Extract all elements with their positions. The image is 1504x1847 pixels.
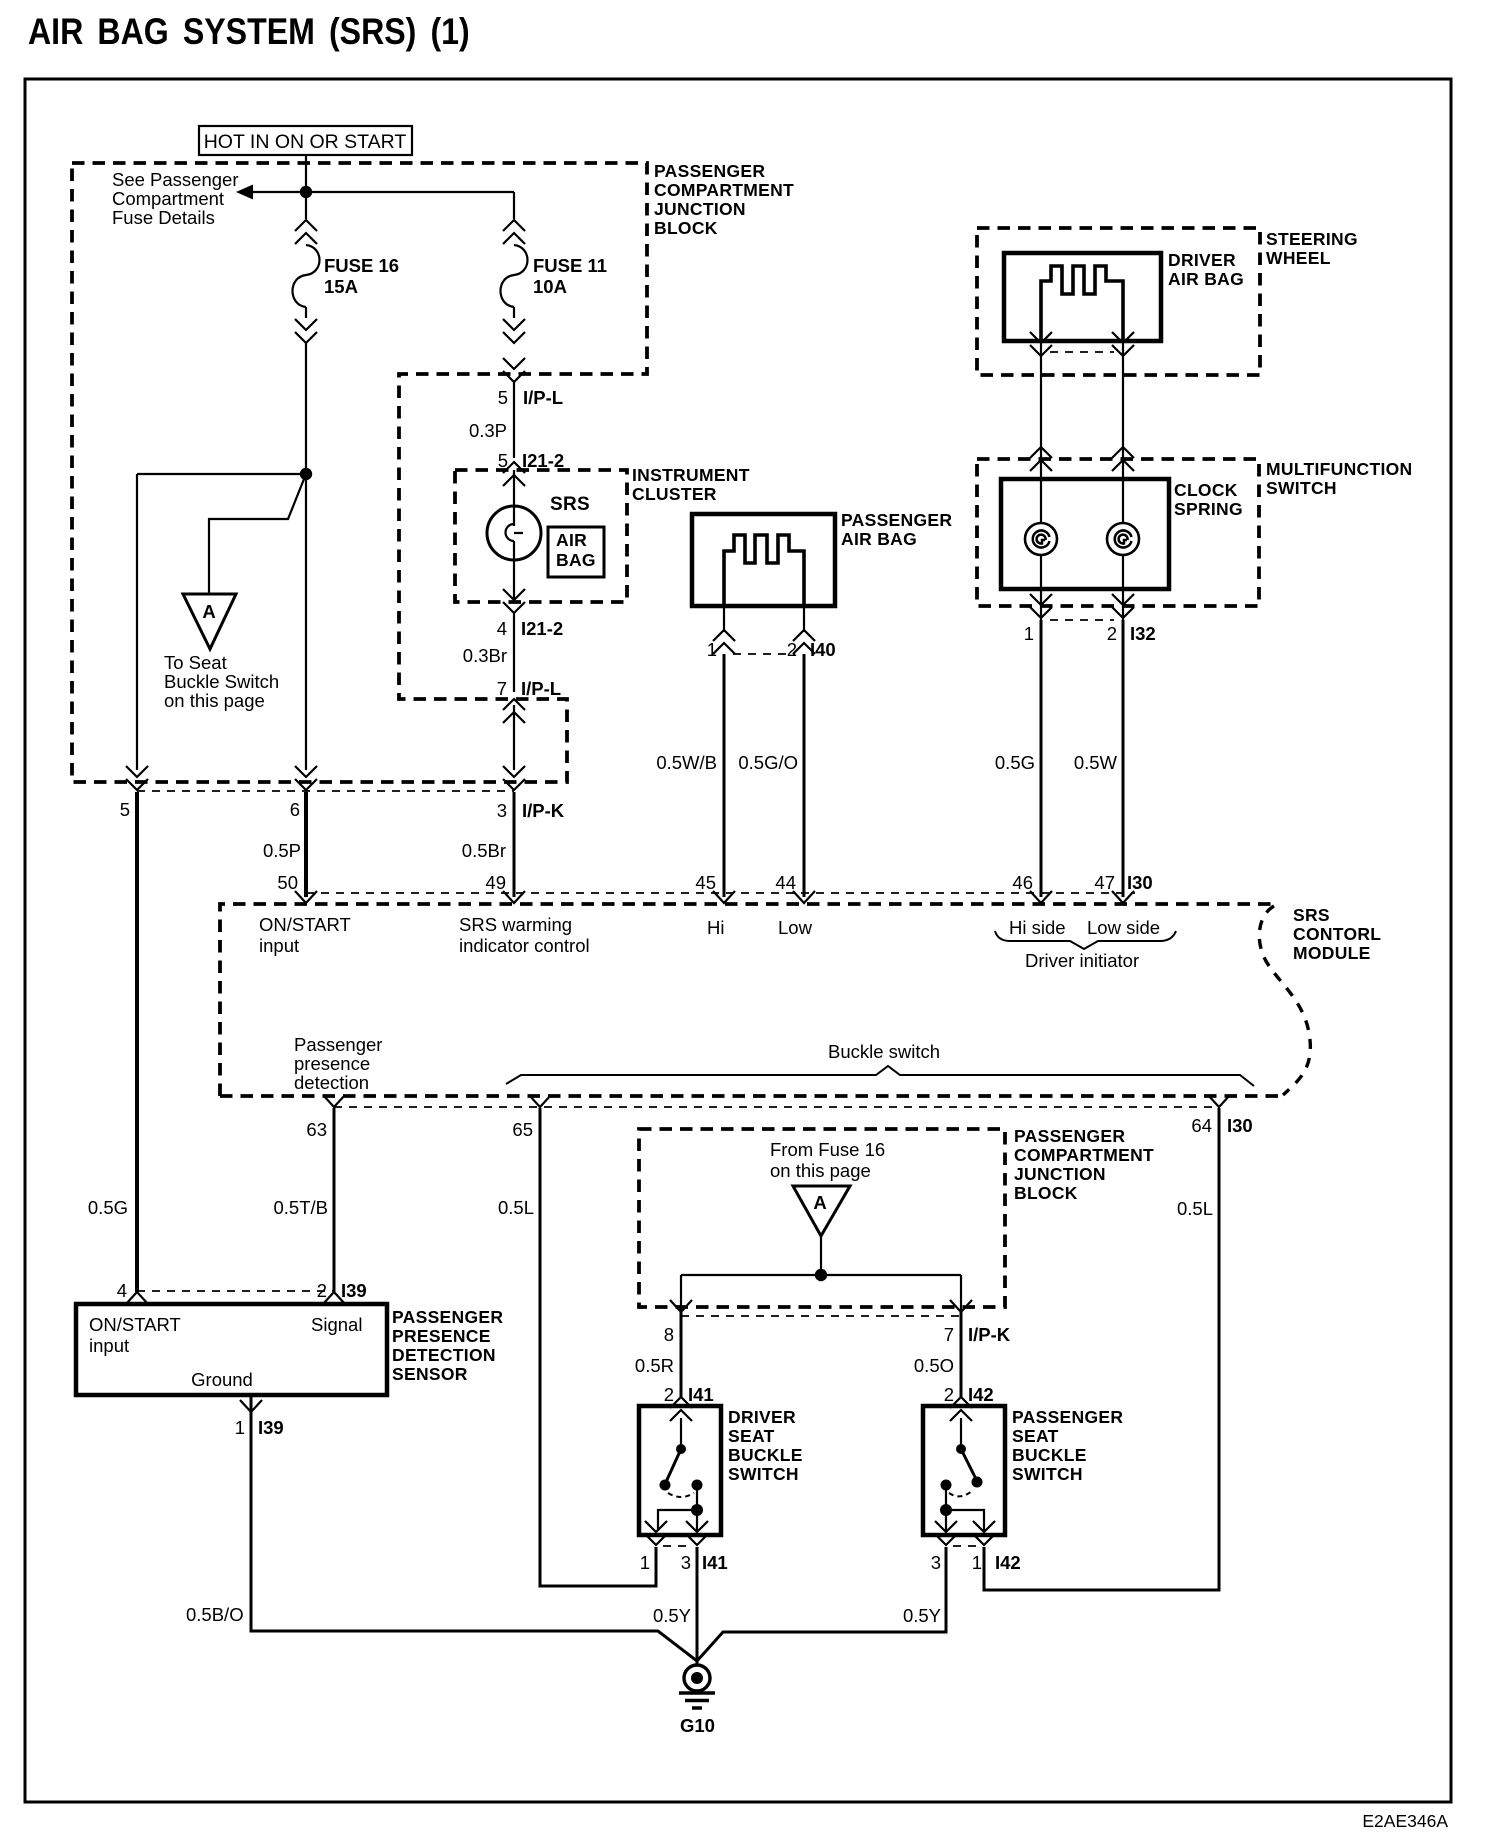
svg-text:I42: I42 [968,1384,994,1405]
wire block2 left drop pin 8 [680,1275,682,1312]
svg-text:presence: presence [294,1053,370,1074]
svg-text:4: 4 [117,1280,127,1301]
svg-text:COMPARTMENT: COMPARTMENT [654,180,794,200]
connector chevrons out of driver switch [645,1521,667,1545]
SRS control module torn right edge [1259,906,1310,1095]
svg-text:CONTORL: CONTORL [1293,924,1381,944]
svg-text:ON/START: ON/START [89,1314,181,1335]
svg-text:STEERING: STEERING [1266,229,1358,249]
label From Fuse 16 on this page [770,1139,885,1181]
label FUSE 11 10A [533,255,607,297]
wire connector line under passenger switch [953,1545,977,1547]
svg-text:detection: detection [294,1072,369,1093]
svg-text:46: 46 [1012,872,1033,893]
svg-text:6: 6 [290,799,300,820]
label PASSENGER COMPARTMENT JUNCTION BLOCK 2 [1014,1126,1154,1203]
svg-text:I21-2: I21-2 [521,618,563,639]
connector chevrons pins 8 and 7 I/P-K [670,1300,692,1312]
wire fuse16 output down [305,343,307,770]
svg-text:65: 65 [512,1119,533,1140]
triangle A (to seat buckle switch) [183,594,236,649]
svg-text:64: 64 [1191,1115,1212,1136]
svg-text:1: 1 [1024,623,1034,644]
svg-text:SPRING: SPRING [1174,499,1243,519]
connector chevrons under driver airbag [1030,332,1052,356]
label 3 1 I42 [931,1552,1021,1573]
svg-text:AIR BAG: AIR BAG [841,529,917,549]
wire diagonal to triangle A [209,474,306,594]
svg-text:1: 1 [235,1417,245,1438]
svg-text:JUNCTION: JUNCTION [1014,1164,1106,1184]
wire fuse11 branch down [513,192,515,219]
clock spring coil 1 [1025,523,1057,555]
svg-text:0.5G: 0.5G [995,752,1035,773]
label 1 2 I40 [707,639,836,660]
label PASSENGER AIR BAG [841,510,952,549]
connector 5 I/P-L entry chevron [503,358,525,382]
label 7 I/P-L [497,678,561,699]
wire block2 right drop pin 7 [960,1275,962,1312]
label ON/START input [259,914,351,956]
svg-text:0.5T/B: 0.5T/B [274,1197,329,1218]
wire airbag pin1 stub [723,606,725,632]
brace driver initiator [995,931,1176,949]
fuse F11 element [501,245,528,307]
label MULTIFUNCTION SWITCH [1266,459,1412,498]
svg-text:To Seat: To Seat [164,652,227,673]
svg-text:I39: I39 [341,1280,367,1301]
svg-text:49: 49 [485,872,506,893]
driver air bag squib element [1041,266,1123,339]
svg-text:I39: I39 [258,1417,284,1438]
wire horizontal feed y=192 [250,191,514,193]
svg-text:DETECTION: DETECTION [392,1345,496,1365]
arrowhead to See Passenger note [236,185,253,200]
wire 0.5W [1122,620,1125,897]
label PASSENGER PRESENCE DETECTION SENSOR [392,1307,503,1384]
svg-text:indicator control: indicator control [459,935,590,956]
svg-text:PASSENGER: PASSENGER [1012,1407,1123,1427]
svg-text:3: 3 [931,1552,941,1573]
svg-text:input: input [89,1335,129,1356]
svg-text:3: 3 [681,1552,691,1573]
label pins 63 65 64 I30 [306,1115,1252,1140]
svg-text:DRIVER: DRIVER [1168,250,1236,270]
svg-text:From Fuse 16: From Fuse 16 [770,1139,885,1160]
connector chevrons into sensor pins 4 2 [126,1292,148,1304]
svg-text:47: 47 [1094,872,1115,893]
wire coil outputs [1041,554,1123,620]
wire 0.3Br [513,613,515,692]
svg-text:15A: 15A [324,276,358,297]
triangle A from fuse 16 [793,1186,850,1236]
wire triangle to bus [820,1236,822,1275]
svg-text:SRS: SRS [1293,905,1330,925]
svg-text:2: 2 [1107,623,1117,644]
wire 0.5W/B [723,654,726,897]
svg-text:SENSOR: SENSOR [392,1364,468,1384]
label 4 I21-2 [497,618,563,639]
svg-text:Passenger: Passenger [294,1034,382,1055]
connector I32 chevrons [1030,594,1052,618]
bracket buckle switch [506,1066,1254,1086]
svg-text:2: 2 [787,639,797,660]
driver seat buckle switch box [639,1406,721,1535]
passenger compartment junction block 1 (dashed outline) [72,163,647,782]
svg-text:2: 2 [317,1280,327,1301]
svg-text:Signal: Signal [311,1314,362,1335]
svg-text:0.5Y: 0.5Y [903,1605,941,1626]
wire connector line above sensor [137,1290,334,1292]
svg-text:50: 50 [277,872,298,893]
svg-text:I/P-K: I/P-K [522,800,565,821]
svg-text:0.5L: 0.5L [498,1197,534,1218]
svg-text:COMPARTMENT: COMPARTMENT [1014,1145,1154,1165]
svg-text:Hi: Hi [707,917,724,938]
svg-text:Ground: Ground [191,1369,253,1390]
clock spring coil 2 [1107,523,1139,555]
svg-text:5: 5 [120,799,130,820]
svg-text:SEAT: SEAT [1012,1426,1059,1446]
instrument cluster dashed box [455,470,627,602]
label CLOCK SPRING [1174,480,1243,519]
svg-text:Compartment: Compartment [112,188,224,209]
wire connector I32 dashed link [1050,619,1114,621]
connector I40 pin chevrons [713,630,735,654]
svg-text:SRS warming: SRS warming [459,914,572,935]
svg-text:BLOCK: BLOCK [654,218,718,238]
wire driver switch pin3 to ground [696,1547,699,1666]
label FUSE 16 15A [324,255,399,297]
connector chevrons out of passenger switch [935,1521,957,1545]
wire 0.5P [304,792,308,897]
label AIR BAG box [548,527,604,577]
label See Passenger Compartment Fuse Details [112,169,239,228]
wire connector line under driver switch [663,1545,690,1547]
wire left branch down [136,474,138,770]
fuse F11 connector chevrons (bottom) [513,307,515,318]
wire airbag pin2 stub [803,606,805,632]
label INSTRUMENT CLUSTER [632,465,750,504]
wire 0.5G/O [803,654,806,897]
svg-text:A: A [813,1192,826,1213]
svg-text:2: 2 [664,1384,674,1405]
svg-text:WHEEL: WHEEL [1266,248,1331,268]
svg-text:Low: Low [778,917,813,938]
svg-text:0.5O: 0.5O [914,1355,954,1376]
wire connector line module top [306,892,1135,894]
svg-text:0.5P: 0.5P [263,840,301,861]
connector 4 I21-2 exit chevron [503,589,525,613]
wire left branch horizontal [137,473,306,475]
svg-text:I30: I30 [1127,872,1153,893]
svg-text:I41: I41 [688,1384,714,1405]
svg-text:SRS: SRS [550,494,590,515]
driver switch internals [658,1418,703,1531]
svg-text:0.5B/O: 0.5B/O [186,1604,244,1625]
label To Seat Buckle Switch on this page [164,652,279,711]
label 2 I39 [317,1280,367,1301]
svg-text:BUCKLE: BUCKLE [728,1445,803,1465]
passenger switch internals [940,1418,984,1531]
svg-text:Driver initiator: Driver initiator [1025,950,1139,971]
connector exit chevrons pins 5 6 3 [126,766,148,790]
svg-text:Buckle switch: Buckle switch [828,1041,940,1062]
svg-text:2: 2 [944,1384,954,1405]
SRS control module dashed outline bottom [220,1094,1283,1098]
connector chevrons into multifunction switch [1030,447,1052,471]
wire block2 bus horizontal [681,1274,961,1276]
svg-text:on this page: on this page [164,690,265,711]
label SRS CONTORL MODULE [1293,905,1381,963]
svg-text:0.5W/B: 0.5W/B [656,752,717,773]
wire 0.5L left [540,1108,656,1586]
svg-text:A: A [202,601,215,622]
svg-text:0.5Br: 0.5Br [462,840,506,861]
svg-text:SWITCH: SWITCH [728,1464,799,1484]
multifunction switch dashed box [977,459,1259,606]
passenger compartment junction block 2 dashed box [639,1129,1005,1307]
svg-text:CLUSTER: CLUSTER [632,484,717,504]
svg-text:1: 1 [640,1552,650,1573]
svg-text:ON/START: ON/START [259,914,351,935]
svg-text:PASSENGER: PASSENGER [1014,1126,1125,1146]
svg-text:7: 7 [497,678,507,699]
svg-text:input: input [259,935,299,956]
connector chevrons into SRS module pins 50 49 45 44 46 47 [295,891,317,903]
svg-text:0.5L: 0.5L [1177,1198,1213,1219]
svg-text:10A: 10A [533,276,567,297]
svg-text:0.5Y: 0.5Y [653,1605,691,1626]
svg-text:0.5G/O: 0.5G/O [738,752,798,773]
passenger presence detection sensor box [76,1304,387,1395]
label 1 I39 [235,1417,284,1438]
svg-text:BAG: BAG [556,550,596,570]
svg-text:FUSE 16: FUSE 16 [324,255,399,276]
svg-text:Hi side: Hi side [1009,917,1066,938]
wire passenger switch pin3 to ground [697,1547,946,1661]
svg-text:0.5W: 0.5W [1074,752,1118,773]
wire 0.5L right [984,1108,1219,1590]
svg-text:MULTIFUNCTION: MULTIFUNCTION [1266,459,1412,479]
svg-text:I/P-L: I/P-L [523,387,563,408]
svg-text:I/P-L: I/P-L [521,678,561,699]
svg-text:CLOCK: CLOCK [1174,480,1238,500]
label PASSENGER SEAT BUCKLE SWITCH [1012,1407,1123,1484]
label 2 I42 [944,1384,994,1405]
svg-text:5: 5 [498,450,508,471]
label DRIVER SEAT BUCKLE SWITCH [728,1407,803,1484]
svg-text:on this page: on this page [770,1160,871,1181]
clock spring box [1001,479,1169,589]
label SRS warming indicator control [459,914,590,956]
steering wheel dashed box [977,228,1260,375]
svg-text:45: 45 [695,872,716,893]
svg-text:0.3P: 0.3P [469,420,507,441]
svg-text:Fuse Details: Fuse Details [112,207,215,228]
label ON/START input (sensor) [89,1314,181,1356]
passenger air bag squib element [724,535,804,604]
svg-text:JUNCTION: JUNCTION [654,199,746,219]
svg-text:63: 63 [306,1119,327,1140]
wire connector I40 dashed link [733,653,795,655]
svg-text:I/P-K: I/P-K [968,1324,1011,1345]
svg-text:MODULE: MODULE [1293,943,1371,963]
fuse F16 connector chevrons (top) [295,220,317,244]
svg-text:AIR: AIR [556,530,587,550]
connector chevron sensor pin 1 [240,1400,262,1412]
svg-text:AIR BAG SYSTEM (SRS) (1): AIR BAG SYSTEM (SRS) (1) [28,12,470,53]
connector 5 I21-2 entry chevron [503,462,525,486]
label DRIVER AIR BAG [1168,250,1244,289]
svg-text:44: 44 [775,872,796,893]
connector chevrons into seat switches [670,1397,692,1421]
svg-text:BUCKLE: BUCKLE [1012,1445,1087,1465]
wire driver airbag pin1 down [1040,341,1042,524]
wire sensor ground pin [251,1395,697,1661]
svg-text:5: 5 [498,387,508,408]
label 5 I21-2 [498,450,564,471]
wire connector line module bottom [334,1106,1219,1108]
svg-text:I40: I40 [810,639,836,660]
svg-text:INSTRUMENT: INSTRUMENT [632,465,750,485]
label Passenger presence detection [294,1034,382,1093]
svg-text:4: 4 [497,618,507,639]
svg-text:I32: I32 [1130,623,1156,644]
svg-text:PASSENGER: PASSENGER [392,1307,503,1327]
wire connector line under block2 [681,1315,961,1317]
label PASSENGER COMPARTMENT JUNCTION BLOCK [654,161,794,238]
svg-text:I42: I42 [995,1552,1021,1573]
svg-text:G10: G10 [680,1715,715,1736]
svg-text:See Passenger: See Passenger [112,169,239,190]
connector 7 I/P-L entry chevron [503,699,525,723]
driver air bag box [1004,253,1161,341]
svg-text:I30: I30 [1227,1115,1253,1136]
svg-text:Buckle Switch: Buckle Switch [164,671,279,692]
label 5 I/P-L [498,387,563,408]
svg-text:0.5G: 0.5G [88,1197,128,1218]
passenger seat buckle switch box [923,1406,1005,1535]
wire from HOT box down [305,155,307,219]
ground G10 symbol [679,1665,715,1708]
wire bulb output [513,560,515,600]
svg-text:HOT IN ON OR START: HOT IN ON OR START [204,131,407,153]
label pins 50 49 45 44 46 47 I30 [277,872,1152,893]
lamp SRS warning bulb [487,470,541,560]
svg-text:PASSENGER: PASSENGER [841,510,952,530]
label pins 5 6 3 I/P-K [120,799,565,821]
label HOT IN ON OR START box [199,126,412,155]
wire 0.5Br [513,792,516,897]
svg-text:8: 8 [664,1324,674,1345]
label 7 I/P-K [944,1324,1011,1345]
svg-text:I41: I41 [702,1552,728,1573]
wire dashed link under driver airbag [1050,351,1114,353]
fuse F16 element [293,245,320,307]
svg-text:1: 1 [972,1552,982,1573]
svg-text:DRIVER: DRIVER [728,1407,796,1427]
svg-text:PASSENGER: PASSENGER [654,161,765,181]
svg-text:SWITCH: SWITCH [1266,478,1337,498]
wire 0.5G left long [135,792,139,1292]
SRS control module dashed outline top and left [220,904,1272,1096]
node junction dot left branch [300,468,312,480]
svg-text:I21-2: I21-2 [522,450,564,471]
svg-text:AIR BAG: AIR BAG [1168,269,1244,289]
wire 0.5G right [1040,620,1043,897]
wire driver airbag pin2 down [1122,341,1124,524]
svg-text:E2AE346A: E2AE346A [1362,1811,1448,1831]
svg-text:0.3Br: 0.3Br [463,645,507,666]
label 1 2 I32 [1024,623,1156,644]
svg-text:PRESENCE: PRESENCE [392,1326,491,1346]
svg-text:3: 3 [497,800,507,821]
label STEERING WHEEL [1266,229,1358,268]
node junction dot block2 [815,1269,827,1281]
svg-text:0.5R: 0.5R [635,1355,674,1376]
wire to I/P-K [513,705,515,770]
svg-text:SEAT: SEAT [728,1426,775,1446]
svg-text:BLOCK: BLOCK [1014,1183,1078,1203]
fuse F11 connector chevrons (top) [503,220,525,244]
connector chevrons out of module pins 63 65 64 [323,1095,345,1107]
fuse F16 connector chevrons (bottom) [305,307,307,318]
svg-text:1: 1 [707,639,717,660]
wire 0.3P [513,382,515,458]
passenger air bag box [692,514,835,606]
wire 0.5T/B [333,1108,336,1292]
wire connector line junction block bottom [137,790,514,792]
label 1 3 I41 [640,1552,728,1573]
node junction dot at fuse feed [300,186,312,198]
svg-text:7: 7 [944,1324,954,1345]
label 2 I41 [664,1384,714,1405]
svg-text:Low side: Low side [1087,917,1160,938]
svg-text:FUSE 11: FUSE 11 [533,255,607,276]
svg-text:SWITCH: SWITCH [1012,1464,1083,1484]
